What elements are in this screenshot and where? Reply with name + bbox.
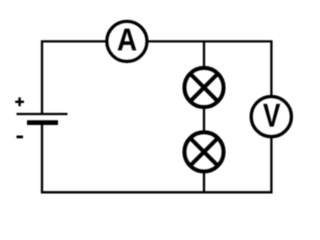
lamp L1: X cross bbox=[190, 74, 218, 102]
label: - (battery negative) bbox=[17, 135, 24, 138]
lamp L1: circle bbox=[184, 68, 223, 107]
voltmeter V: circle bbox=[251, 97, 291, 137]
wire: left side lower (battery - terminal down, across bottom, up to voltmeter bottom) bbox=[42, 123, 271, 193]
wire: middle lamp branch (top wire down to bottom wire) bbox=[203, 41, 205, 192]
voltmeter V: letter bbox=[263, 104, 280, 127]
ammeter A: letter bbox=[118, 29, 137, 51]
lamp L2: circle bbox=[184, 132, 223, 171]
wire: left side upper (battery + terminal up to top-left corner, across top, down to voltmeter top) bbox=[42, 41, 271, 114]
battery B1: long thin positive plate bbox=[17, 113, 68, 115]
lamp L2: X cross bbox=[190, 138, 218, 166]
ammeter A: circle bbox=[107, 21, 147, 61]
battery B1: short thick negative plate bbox=[27, 120, 58, 125]
label: + (battery positive) bbox=[15, 97, 24, 106]
